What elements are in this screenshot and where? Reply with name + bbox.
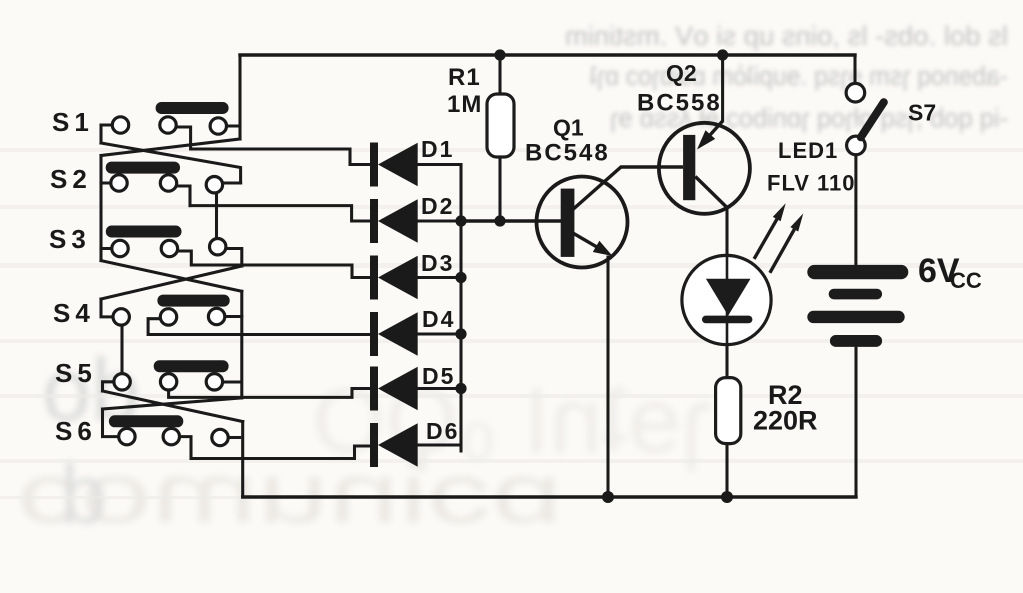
wire R2 to ground rail	[725, 444, 728, 498]
wire left rail to S4	[101, 299, 113, 317]
wire right vertical below X2	[240, 291, 243, 398]
faint scan streaks	[0, 148, 1023, 499]
wire left rail S1 to S2	[101, 156, 111, 184]
diode D1	[370, 143, 418, 187]
battery B1 6Vcc	[807, 265, 908, 347]
node R1 bottom to base line	[494, 215, 505, 226]
wire left rail below S3	[99, 249, 102, 261]
svg-text:ls dol .obs- ls ,oins up si oV: ls dol .obs- ls ,oins up si oV .mstinim	[565, 21, 1008, 51]
wire S1 left contact stub	[101, 125, 112, 143]
svg-text:Q1: Q1	[553, 115, 584, 141]
wire left rail S5 to S6	[103, 409, 119, 437]
wire S4 right contact hook	[225, 315, 242, 318]
switch S1	[112, 102, 228, 134]
wire S6 right contact hook	[228, 436, 240, 439]
wire S2 middle hook and D2 line	[177, 186, 191, 206]
wire S5 middle hook and D5 line	[169, 389, 371, 398]
wire D5 anode to bus	[418, 387, 462, 390]
switch S6	[109, 415, 228, 445]
svg-text:-abɘnoq ɿsm ɘɿsq .ɘupiʇὸm ɒɔib: -abɘnoq ɿsm ɘɿsq .ɘupiʇὸm ɒɔibɿoɔ ɒɿʇ	[590, 61, 1008, 91]
wire S5 right contact hook	[223, 380, 241, 383]
svg-text:S2: S2	[50, 164, 92, 194]
transistor Q1	[537, 167, 684, 268]
wire D2 line	[190, 206, 371, 221]
wire R1 top lead to rail	[498, 55, 501, 94]
wire S7 to battery positive	[854, 155, 857, 265]
wire D1 anode to bus	[418, 163, 462, 166]
switch S4	[113, 295, 230, 325]
svg-text:S4: S4	[53, 298, 95, 328]
wire X2 crossing diagonal lower	[101, 261, 242, 292]
LED light arrow 1	[754, 203, 786, 259]
svg-text:S6: S6	[55, 416, 97, 446]
wire right vertical below X3 to bottom rail	[241, 422, 244, 498]
node diode bus D4	[455, 328, 466, 339]
svg-text:D4: D4	[422, 306, 455, 332]
LED light arrow 2	[770, 213, 803, 272]
wire diode anode bus	[459, 165, 462, 452]
switch S7	[846, 83, 884, 154]
ghost bleed-through text top right	[565, 21, 1008, 133]
wire D3 anode to bus	[418, 276, 462, 279]
svg-text:220R: 220R	[753, 406, 818, 436]
svg-text:LED1: LED1	[778, 138, 838, 163]
wire X1 crossing diagonal lower (left rail to right drop)	[101, 143, 241, 183]
resistor R2	[716, 378, 741, 444]
node top rail to Q2 emitter	[717, 49, 728, 60]
svg-text:D5: D5	[422, 363, 455, 389]
svg-text:S1: S1	[52, 107, 94, 137]
diode D5	[370, 367, 418, 411]
wire X3 crossing diagonal lower	[103, 391, 243, 422]
wire S4 middle hook and D4 line	[148, 319, 371, 335]
svg-text:CC: CC	[950, 268, 982, 293]
diode D2	[370, 199, 418, 243]
ghost big mirrored text middle/bottom	[17, 340, 712, 541]
diode D3	[370, 256, 418, 300]
svg-text:FLV 110: FLV 110	[767, 171, 856, 196]
switch S2	[106, 162, 223, 193]
wire D6 anode to bus	[418, 443, 462, 446]
node top rail to R1	[494, 49, 505, 60]
svg-text:D3: D3	[421, 250, 454, 276]
node ground rail Q1 emitter	[602, 491, 614, 503]
wire D4 anode to bus	[418, 332, 462, 335]
svg-text:1M: 1M	[447, 91, 482, 118]
svg-text:S5: S5	[55, 358, 97, 388]
svg-text:S3: S3	[49, 224, 91, 254]
wire X1 crossing diagonal upper (to left rail)	[101, 139, 240, 156]
wire S3 right contact hook	[226, 249, 242, 267]
node diode bus to base line	[455, 215, 466, 226]
svg-text:D2: D2	[421, 193, 454, 219]
wire X2 crossing diagonal upper	[101, 266, 242, 299]
wire X3 crossing diagonal upper	[103, 398, 241, 409]
svg-text:Q2: Q2	[666, 60, 697, 86]
wire Q2 collector to LED	[725, 208, 728, 257]
wire S7 top lead	[853, 55, 856, 83]
wire S3 middle hook and D3 line	[178, 251, 372, 278]
wire Q2 emitter from top rail	[721, 55, 724, 121]
resistor R1	[487, 94, 514, 157]
wire battery negative to ground rail	[854, 347, 857, 497]
transistor Q2	[659, 121, 750, 214]
diode D6	[370, 423, 418, 467]
wire D2 anode to bus	[418, 219, 462, 222]
wire S6 middle hook and D6 line	[180, 437, 372, 459]
wire left rail S2 to S3	[101, 183, 112, 249]
wire top supply rail	[240, 53, 855, 56]
wire S1 right contact hook	[227, 124, 241, 127]
wire top-rail left drop to S1	[238, 55, 241, 139]
wire S1 middle hook and D1 line	[177, 127, 372, 165]
wire bottom ground rail	[243, 495, 856, 498]
switch S3	[106, 226, 226, 257]
wire S2 right to S3 right vertical	[215, 193, 218, 240]
svg-text:BC558: BC558	[637, 90, 722, 117]
svg-text:D1: D1	[421, 136, 454, 162]
LED LED1	[682, 255, 771, 344]
svg-text:D6: D6	[426, 418, 459, 444]
node ground rail R2	[721, 491, 733, 503]
svg-text:S7: S7	[908, 100, 936, 126]
wire Q1 emitter to ground	[606, 257, 609, 497]
svg-text:BC548: BC548	[525, 140, 610, 167]
svg-text:R1: R1	[448, 64, 481, 91]
wire S2 right contact hook	[223, 181, 241, 184]
wire S5 left stub	[103, 382, 115, 391]
wire R1 bottom lead	[498, 157, 501, 221]
diode D4	[370, 312, 418, 356]
switch S5	[114, 360, 229, 390]
node diode bus D3	[455, 272, 466, 283]
node diode bus D5	[455, 383, 466, 394]
wire left rail S4 to S5	[120, 325, 123, 373]
wire LED cathode to R2	[725, 344, 728, 378]
wire node bus to Q1 base	[461, 219, 561, 222]
